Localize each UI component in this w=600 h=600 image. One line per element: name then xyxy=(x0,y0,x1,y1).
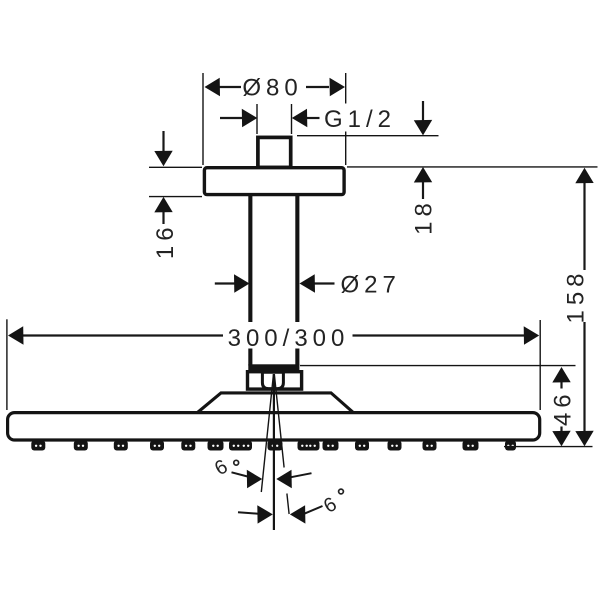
dim 18 lower line xyxy=(422,182,424,200)
dim Ø27 right leader xyxy=(314,282,335,284)
ext line head top (46 dim) xyxy=(300,365,576,367)
arrow G1/2 right xyxy=(292,109,308,127)
pipe left wall lower segment xyxy=(248,349,252,366)
arrow 46 top xyxy=(552,367,570,383)
spray angle right 6-degree line upper segment xyxy=(274,374,284,468)
ext line 300/300 left xyxy=(6,319,8,410)
arrow 300/300 right xyxy=(524,326,540,344)
leader lower 6deg left xyxy=(238,512,258,513)
G1/2 thread square xyxy=(258,137,291,167)
svg-text:G1/2: G1/2 xyxy=(324,106,396,133)
dim 16 upper line xyxy=(162,131,164,152)
extension lines xyxy=(7,73,598,447)
leader upper 6deg right xyxy=(291,473,312,477)
connector nut solid bar xyxy=(248,364,299,371)
svg-text:18: 18 xyxy=(410,198,437,235)
arrow Ø27 left xyxy=(234,274,250,292)
ext line thread top (18 dim) xyxy=(297,135,439,137)
arrow Ø80 right xyxy=(330,78,346,96)
ext line head bottom (46/158 dims) xyxy=(504,446,593,448)
svg-text:300/300: 300/300 xyxy=(228,325,350,352)
nozzle strip xyxy=(31,441,516,451)
arrow 16 bottom xyxy=(154,197,172,213)
shower head body xyxy=(8,413,540,440)
nozzle 15 xyxy=(505,441,516,451)
nozzle 3 xyxy=(114,441,128,451)
nozzle 9 wide xyxy=(298,441,320,451)
spray angle vertical reference line xyxy=(273,374,275,530)
ext line flange bottom left (16 dim) xyxy=(149,196,202,198)
nozzle 2 xyxy=(74,441,88,451)
dim G1/2 right leader xyxy=(307,117,320,119)
arrow Ø80 left xyxy=(205,78,221,96)
nozzle 6 xyxy=(208,441,224,451)
ball-joint inner piece xyxy=(262,372,283,388)
dim G1/2 left leader xyxy=(220,117,243,119)
ext line left of flange (Ø80) xyxy=(202,73,204,165)
ceiling flange plate xyxy=(204,168,344,195)
arrow 46 bottom xyxy=(552,431,570,447)
dim 300/300 right segment xyxy=(353,334,526,336)
nozzle 12 xyxy=(388,441,402,451)
dim 16 lower line xyxy=(162,212,164,225)
svg-text:46: 46 xyxy=(549,389,576,426)
arrow lower 6deg pointing right at vertical line xyxy=(257,505,273,523)
nozzle 13 xyxy=(423,441,437,451)
dim 300/300 left segment xyxy=(22,334,223,336)
dim 158 lower segment xyxy=(583,322,585,432)
arrow 18 top xyxy=(414,120,432,136)
nozzle 8 center xyxy=(268,441,283,451)
trapezoid transition cone xyxy=(198,393,354,413)
pipe (shower arm) left wall upper segment xyxy=(248,195,252,322)
nozzle 14 xyxy=(463,441,479,451)
svg-text:158: 158 xyxy=(562,268,589,323)
ext line G1/2 right xyxy=(291,104,293,134)
arrow 158 top xyxy=(575,168,593,184)
arrow 16 top xyxy=(154,151,172,167)
dim Ø27 left leader xyxy=(215,282,236,284)
nozzle 7 wide xyxy=(229,441,252,451)
spray angle left 6-degree line xyxy=(261,374,273,492)
arrow Ø27 right xyxy=(300,274,316,292)
ext line G1/2 left xyxy=(256,104,258,134)
pipe right wall lower segment xyxy=(295,349,299,366)
dim 18 upper line xyxy=(422,101,424,121)
nozzle 5 xyxy=(181,441,195,451)
ext line right of flange upper segment (Ø80) xyxy=(345,73,347,104)
leader lower 6deg right xyxy=(305,506,323,514)
ext line right of flange lower segment (Ø80) xyxy=(345,132,347,166)
svg-text:16: 16 xyxy=(152,222,179,259)
nozzle 1 xyxy=(31,441,45,451)
dim 46 upper segment xyxy=(560,382,562,389)
dim 46 lower segment xyxy=(560,427,562,433)
svg-text:Ø80: Ø80 xyxy=(242,75,302,102)
ball-joint housing xyxy=(248,372,302,389)
dimension line segments xyxy=(22,87,585,432)
dim 158 upper segment xyxy=(583,182,585,270)
dim Ø80 right leader xyxy=(306,86,329,88)
spray angle right 6-degree line lower segment xyxy=(287,494,289,515)
arrow upper 6deg pointing left at vertical line xyxy=(276,470,292,488)
arrow lower 6deg pointing left at right spray line xyxy=(290,505,306,523)
arrow 158 bottom xyxy=(575,431,593,447)
arrow 18 bottom xyxy=(414,167,432,183)
label lower 6 degrees ring xyxy=(339,489,344,494)
ext line flange top left (16 dim) xyxy=(149,166,202,168)
pipe right wall upper segment xyxy=(295,195,299,322)
arrow 300/300 left xyxy=(8,326,24,344)
nozzle 10 xyxy=(323,441,339,451)
ext line 300/300 right xyxy=(539,320,541,410)
ext line flange top right (18/158 dims) xyxy=(347,166,598,168)
svg-text:Ø27: Ø27 xyxy=(341,271,401,298)
nozzle face dots xyxy=(35,445,514,447)
nozzle 4 xyxy=(150,441,164,451)
arrow upper 6deg pointing right at left spray line xyxy=(247,470,263,488)
nozzle 11 xyxy=(355,441,369,451)
arrow G1/2 left xyxy=(242,109,258,127)
leader upper 6deg left xyxy=(232,472,249,476)
label upper 6 degrees ring xyxy=(234,460,239,465)
dim Ø80 left leader xyxy=(219,86,241,88)
